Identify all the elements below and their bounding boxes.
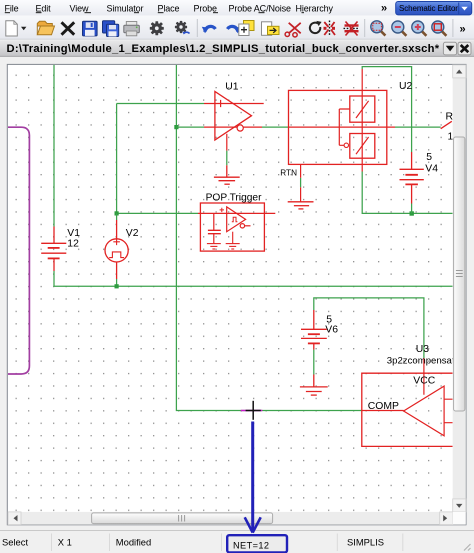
svg-text:File: File	[5, 3, 19, 13]
svg-text:V1: V1	[67, 228, 80, 239]
net name readout NET=12	[227, 535, 287, 552]
icon: new sheet	[244, 21, 255, 31]
wire: U2 control out to R1	[395, 126, 441, 128]
icon: undo	[205, 26, 216, 31]
wire: U2 switch top to V4 positive	[362, 67, 411, 152]
svg-text:View: View	[70, 3, 89, 13]
voltage source V1	[41, 227, 66, 272]
net label RTN	[280, 169, 297, 178]
switch block U2	[289, 69, 396, 172]
icon: zoom sel	[371, 21, 383, 33]
POP Trigger label	[206, 192, 262, 203]
icon: paste sheet	[262, 22, 272, 36]
wire: ground rail y=286.3 from V1 bottom to right edge	[54, 271, 453, 286]
V1 value 12	[67, 238, 79, 249]
wire: V6 bottom to ground	[313, 350, 315, 375]
U3 value 3p2zcompensat	[387, 356, 455, 367]
svg-text:Select: Select	[2, 536, 28, 547]
svg-text:V2: V2	[126, 228, 139, 239]
icon: bus mode	[345, 24, 359, 26]
compensator U3 (3p2zcompensator)	[362, 358, 453, 446]
title bar	[0, 40, 474, 56]
U1 label	[225, 82, 239, 93]
V4 value 5	[426, 152, 432, 163]
node junction at V2 bottom (116.6,286.3)	[115, 284, 119, 288]
svg-text:»: »	[381, 3, 387, 15]
grid dots	[8, 65, 453, 512]
svg-text:Probe: Probe	[194, 3, 218, 13]
wire: V4 bottom pin to rail	[411, 204, 413, 214]
ground (POP trigger comparator)	[226, 232, 240, 249]
wire: V2 bottom to rail	[116, 279, 118, 286]
V6 value 5	[326, 315, 332, 326]
pin label COMP	[368, 401, 399, 412]
svg-text:V6: V6	[325, 325, 338, 336]
svg-text:COMP: COMP	[368, 401, 399, 412]
icon: wire mode	[324, 22, 335, 35]
svg-text:POP Trigger: POP Trigger	[206, 192, 262, 203]
V2 label	[126, 228, 139, 239]
svg-text:Simulator: Simulator	[107, 3, 144, 13]
icon: zoom full	[432, 21, 444, 33]
voltage source V2 (pulse)	[105, 220, 128, 279]
icon: gear	[150, 21, 164, 35]
annotation arrow (callout from cursor to NET readout)	[245, 422, 261, 533]
Schematic Editor combo	[396, 2, 472, 15]
wire: U1 inverted output to U2 control input	[262, 126, 289, 128]
op-amp U1	[204, 92, 264, 151]
annotation: purple rounded outline (clipped at left)	[7, 127, 30, 374]
cursor crosshair	[246, 401, 261, 420]
svg-text:5: 5	[426, 152, 432, 163]
node junction at x=176.4 y=126.8 (U1 inverting input tap)	[174, 125, 178, 129]
icon: open folder	[37, 21, 52, 35]
icon: gear run	[175, 21, 187, 33]
icon: cut	[289, 23, 301, 34]
icon: close X	[62, 22, 75, 34]
toolbar	[0, 16, 474, 40]
svg-text:Place: Place	[158, 3, 180, 13]
node junction at V2 top (116.6,213.4)	[115, 211, 119, 215]
wire highlight segment (selected net under cursor)	[241, 410, 262, 412]
svg-text:Modified: Modified	[116, 536, 151, 547]
svg-text:U1: U1	[225, 82, 239, 93]
ground (below V6)	[300, 375, 328, 396]
svg-text:3p2zcompensat: 3p2zcompensat	[387, 356, 455, 367]
svg-text:U2: U2	[399, 81, 413, 92]
R1 value 1	[448, 131, 454, 142]
icon: zoom in	[412, 21, 424, 33]
wire: RTN pin green segment	[300, 178, 302, 188]
POP Trigger block	[198, 203, 275, 251]
scrollbar corner	[453, 512, 466, 525]
wire: U2 switch bottom to rail y=213.4	[362, 172, 453, 214]
svg-text:U3: U3	[416, 344, 430, 355]
svg-text:Probe AC/Noise: Probe AC/Noise	[229, 3, 291, 13]
svg-text:V4: V4	[425, 164, 438, 175]
icon: save all	[103, 21, 115, 33]
wire: V6 loop to U3 VCC	[314, 298, 424, 358]
icon: save	[83, 21, 98, 36]
svg-text:VCC: VCC	[413, 376, 435, 387]
svg-text:Hierarchy: Hierarchy	[296, 3, 334, 13]
wire: U1 non-inverting input from x=116.6	[117, 103, 204, 105]
pin label VCC	[413, 376, 435, 387]
voltage source V6	[301, 310, 327, 350]
voltage source V4	[400, 152, 424, 204]
U3 label	[416, 344, 430, 355]
icon: redo	[227, 26, 238, 31]
icon: new	[6, 21, 17, 36]
svg-text:SIMPLIS: SIMPLIS	[347, 536, 384, 547]
svg-text:D:\Training\Module_1_Examples\: D:\Training\Module_1_Examples\1.2_SIMPLI…	[7, 43, 440, 55]
V4 label	[425, 164, 438, 175]
wire: net 12 vertical from top at x=176.4 down to corner, then right to U3 COMP	[176, 65, 361, 411]
svg-text:»: »	[460, 24, 466, 36]
svg-text:R: R	[446, 111, 454, 122]
wire: net from top to V1 positive at x=54	[53, 65, 55, 227]
wire: U1 inverting input from junction	[176, 126, 204, 128]
menu bar	[0, 0, 474, 16]
ground (RTN)	[288, 202, 314, 209]
R1 label	[446, 111, 454, 122]
svg-text:12: 12	[67, 238, 79, 249]
svg-text:Edit: Edit	[36, 3, 52, 13]
V1 label	[67, 228, 80, 239]
resistor R1 (clipped at canvas edge)	[441, 121, 452, 128]
ground (POP trigger cap)	[207, 244, 221, 249]
svg-text:X 1: X 1	[58, 536, 72, 547]
wire: vertical x=116.6 from U1 +in down to V2 node	[116, 104, 118, 214]
wire: V2 node to POP Trigger input	[117, 212, 198, 214]
ground (below U1)	[214, 165, 240, 184]
capacitor (inside POP trigger)	[208, 213, 221, 243]
svg-text:NET=12: NET=12	[233, 541, 269, 551]
vertical scrollbar	[453, 65, 466, 512]
V6 label	[325, 325, 338, 336]
wire: V2 top pin stub	[116, 213, 118, 220]
RTN pin stubs	[300, 164, 302, 201]
wire: U1 ground green segment	[226, 151, 228, 166]
horizontal scrollbar	[8, 512, 453, 525]
icon: print	[126, 22, 137, 27]
icon: rotate	[310, 23, 320, 33]
svg-text:RTN: RTN	[280, 169, 297, 178]
svg-text:1: 1	[448, 131, 454, 142]
svg-text:Schematic Editor: Schematic Editor	[399, 4, 458, 13]
node junction at V4 bottom (411.6,213.4)	[410, 211, 414, 215]
U2 label	[399, 81, 413, 92]
icon: zoom out	[392, 21, 404, 33]
